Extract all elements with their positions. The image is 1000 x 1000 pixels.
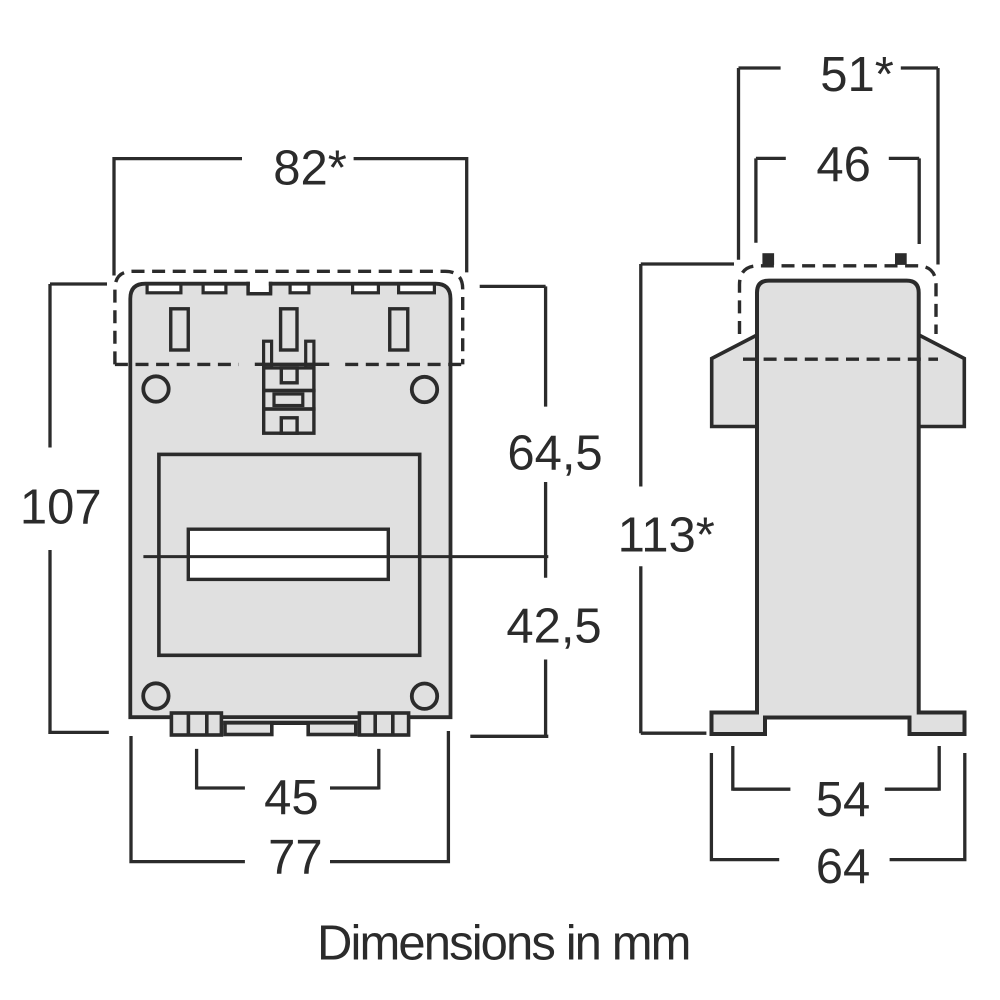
screw hole bottom right <box>412 684 437 709</box>
side body with feet <box>712 281 965 734</box>
top edge slot 2 <box>203 284 226 293</box>
dim 64 bracket <box>711 753 964 861</box>
latch box 3 notch <box>281 418 297 433</box>
foot block left <box>171 713 221 735</box>
dim 113* lines <box>641 264 734 733</box>
dim 51* bracket <box>739 68 939 265</box>
svg-text:Dimensions in mm: Dimensions in mm <box>317 916 690 970</box>
dim 46 bracket <box>756 158 919 244</box>
dim 107 bracket <box>48 284 109 732</box>
top edge slot 5 <box>399 284 435 293</box>
latch ear left <box>264 341 272 368</box>
top edge notch <box>250 281 269 292</box>
side tab square left <box>762 253 774 265</box>
vertical slot left <box>171 309 189 350</box>
top edge slot 4 <box>353 284 379 293</box>
dim 82* bracket <box>114 157 467 276</box>
svg-text:46: 46 <box>816 138 871 192</box>
screw hole bottom left <box>143 683 168 708</box>
front dashed panel line <box>115 363 463 366</box>
svg-text:45: 45 <box>264 771 319 825</box>
svg-text:107: 107 <box>20 481 102 535</box>
latch box 2 <box>264 391 314 410</box>
side dashed panel line <box>743 358 938 361</box>
latch ear right <box>306 341 314 368</box>
svg-text:64,5: 64,5 <box>507 426 602 480</box>
latch box 1 <box>264 368 314 391</box>
latch box 3 <box>264 409 314 433</box>
side tab square right <box>895 253 907 265</box>
inner window <box>159 454 420 655</box>
rail line <box>223 721 357 725</box>
svg-text:113*: 113* <box>618 508 715 562</box>
dim 45 bracket <box>197 749 379 790</box>
latch box 1 notch <box>281 368 297 383</box>
svg-text:51*: 51* <box>820 48 894 102</box>
busbar slot <box>188 529 388 579</box>
side wing left <box>712 335 758 427</box>
svg-text:82*: 82* <box>273 141 347 195</box>
front body <box>130 284 450 718</box>
top edge slot 1 <box>147 284 181 293</box>
centerline <box>143 555 548 558</box>
latch box 2 inner <box>274 394 303 406</box>
dim 77 bracket <box>131 731 448 863</box>
dim 54 bracket <box>733 746 939 791</box>
rail bar left <box>225 723 272 735</box>
dim 64,5 lines <box>480 286 546 577</box>
dim 42,5 lines <box>470 660 548 738</box>
side dashed outline (51mm envelope) <box>740 266 937 334</box>
screw hole top left <box>143 376 168 401</box>
foot block right <box>359 713 408 735</box>
rail bar right <box>308 723 356 735</box>
svg-text:77: 77 <box>268 830 323 884</box>
svg-text:42,5: 42,5 <box>506 600 601 654</box>
top edge slot 3 <box>290 284 309 293</box>
latch cross line <box>255 363 329 366</box>
vertical slot middle <box>281 309 297 350</box>
vertical slot right <box>390 309 408 350</box>
svg-text:54: 54 <box>816 773 871 827</box>
front dashed outline (82mm envelope) <box>115 271 463 364</box>
svg-text:64: 64 <box>816 840 871 894</box>
side wing right <box>918 335 964 427</box>
screw hole top right <box>412 377 437 402</box>
